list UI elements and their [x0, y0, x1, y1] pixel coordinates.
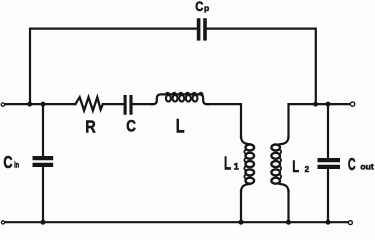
terminal output [350, 102, 354, 106]
node input junction with Cp rail [27, 102, 32, 107]
capacitor Cin [35, 158, 52, 165]
svg-text:p: p [204, 3, 209, 13]
inductor L2 loops [271, 145, 280, 184]
terminal input [1, 103, 4, 106]
inductor L2 top hook [280, 136, 289, 144]
wire L to L1 corner [207, 104, 241, 137]
inductor L1 bottom hook [241, 184, 250, 192]
node L2 bottom [286, 220, 291, 225]
inductor L body [151, 94, 209, 104]
svg-text:in: in [14, 161, 19, 170]
capacitor C [125, 97, 131, 114]
svg-text:L: L [224, 153, 231, 174]
svg-text:R: R [85, 116, 96, 136]
svg-text:L: L [292, 157, 299, 176]
node Cin branch bottom [41, 220, 46, 225]
node Cin branch top [41, 102, 46, 107]
node Cout branch bottom [326, 220, 331, 225]
svg-text:C: C [195, 0, 203, 14]
inductor L1 loops [246, 145, 255, 184]
inductor L2 crossover nubs [279, 150, 282, 178]
wire L2 bottom stub [287, 191, 289, 222]
inductor L1 top hook [241, 136, 250, 144]
wire Cout branch lower [327, 169, 329, 221]
node Cout branch top [326, 102, 331, 107]
inductor L1 crossover nubs [243, 150, 246, 178]
wire Cin branch upper [42, 104, 44, 156]
inductor L crossover bumps [166, 93, 203, 95]
inductor L loops [166, 95, 198, 101]
resistor R [75, 97, 103, 110]
svg-text:C: C [348, 154, 356, 174]
svg-text:L: L [176, 116, 185, 137]
svg-text:C: C [126, 118, 136, 136]
wire L1 bottom stub [240, 191, 242, 222]
wire L2 top corner to output [289, 104, 351, 137]
wire input segment [5, 103, 75, 105]
terminal bottom right [348, 221, 352, 225]
node L1 bottom [239, 220, 244, 225]
svg-text:C: C [3, 152, 12, 172]
svg-text:1: 1 [234, 162, 240, 173]
capacitor Cp [199, 20, 205, 39]
wire Cout branch upper [327, 104, 329, 158]
wire Cin branch lower [42, 167, 44, 221]
svg-text:out: out [360, 163, 374, 172]
node Cp rail junction right [313, 102, 318, 107]
wire C to L [133, 103, 154, 105]
wire bottom rail [5, 221, 348, 223]
wire top rail left segment [30, 29, 197, 105]
wire top rail right segment [207, 29, 316, 105]
svg-text:2: 2 [305, 165, 310, 174]
wire R to C [103, 103, 124, 105]
terminal bottom left [1, 221, 4, 224]
inductor L2 bottom hook [280, 184, 289, 192]
capacitor Cout [320, 160, 338, 167]
